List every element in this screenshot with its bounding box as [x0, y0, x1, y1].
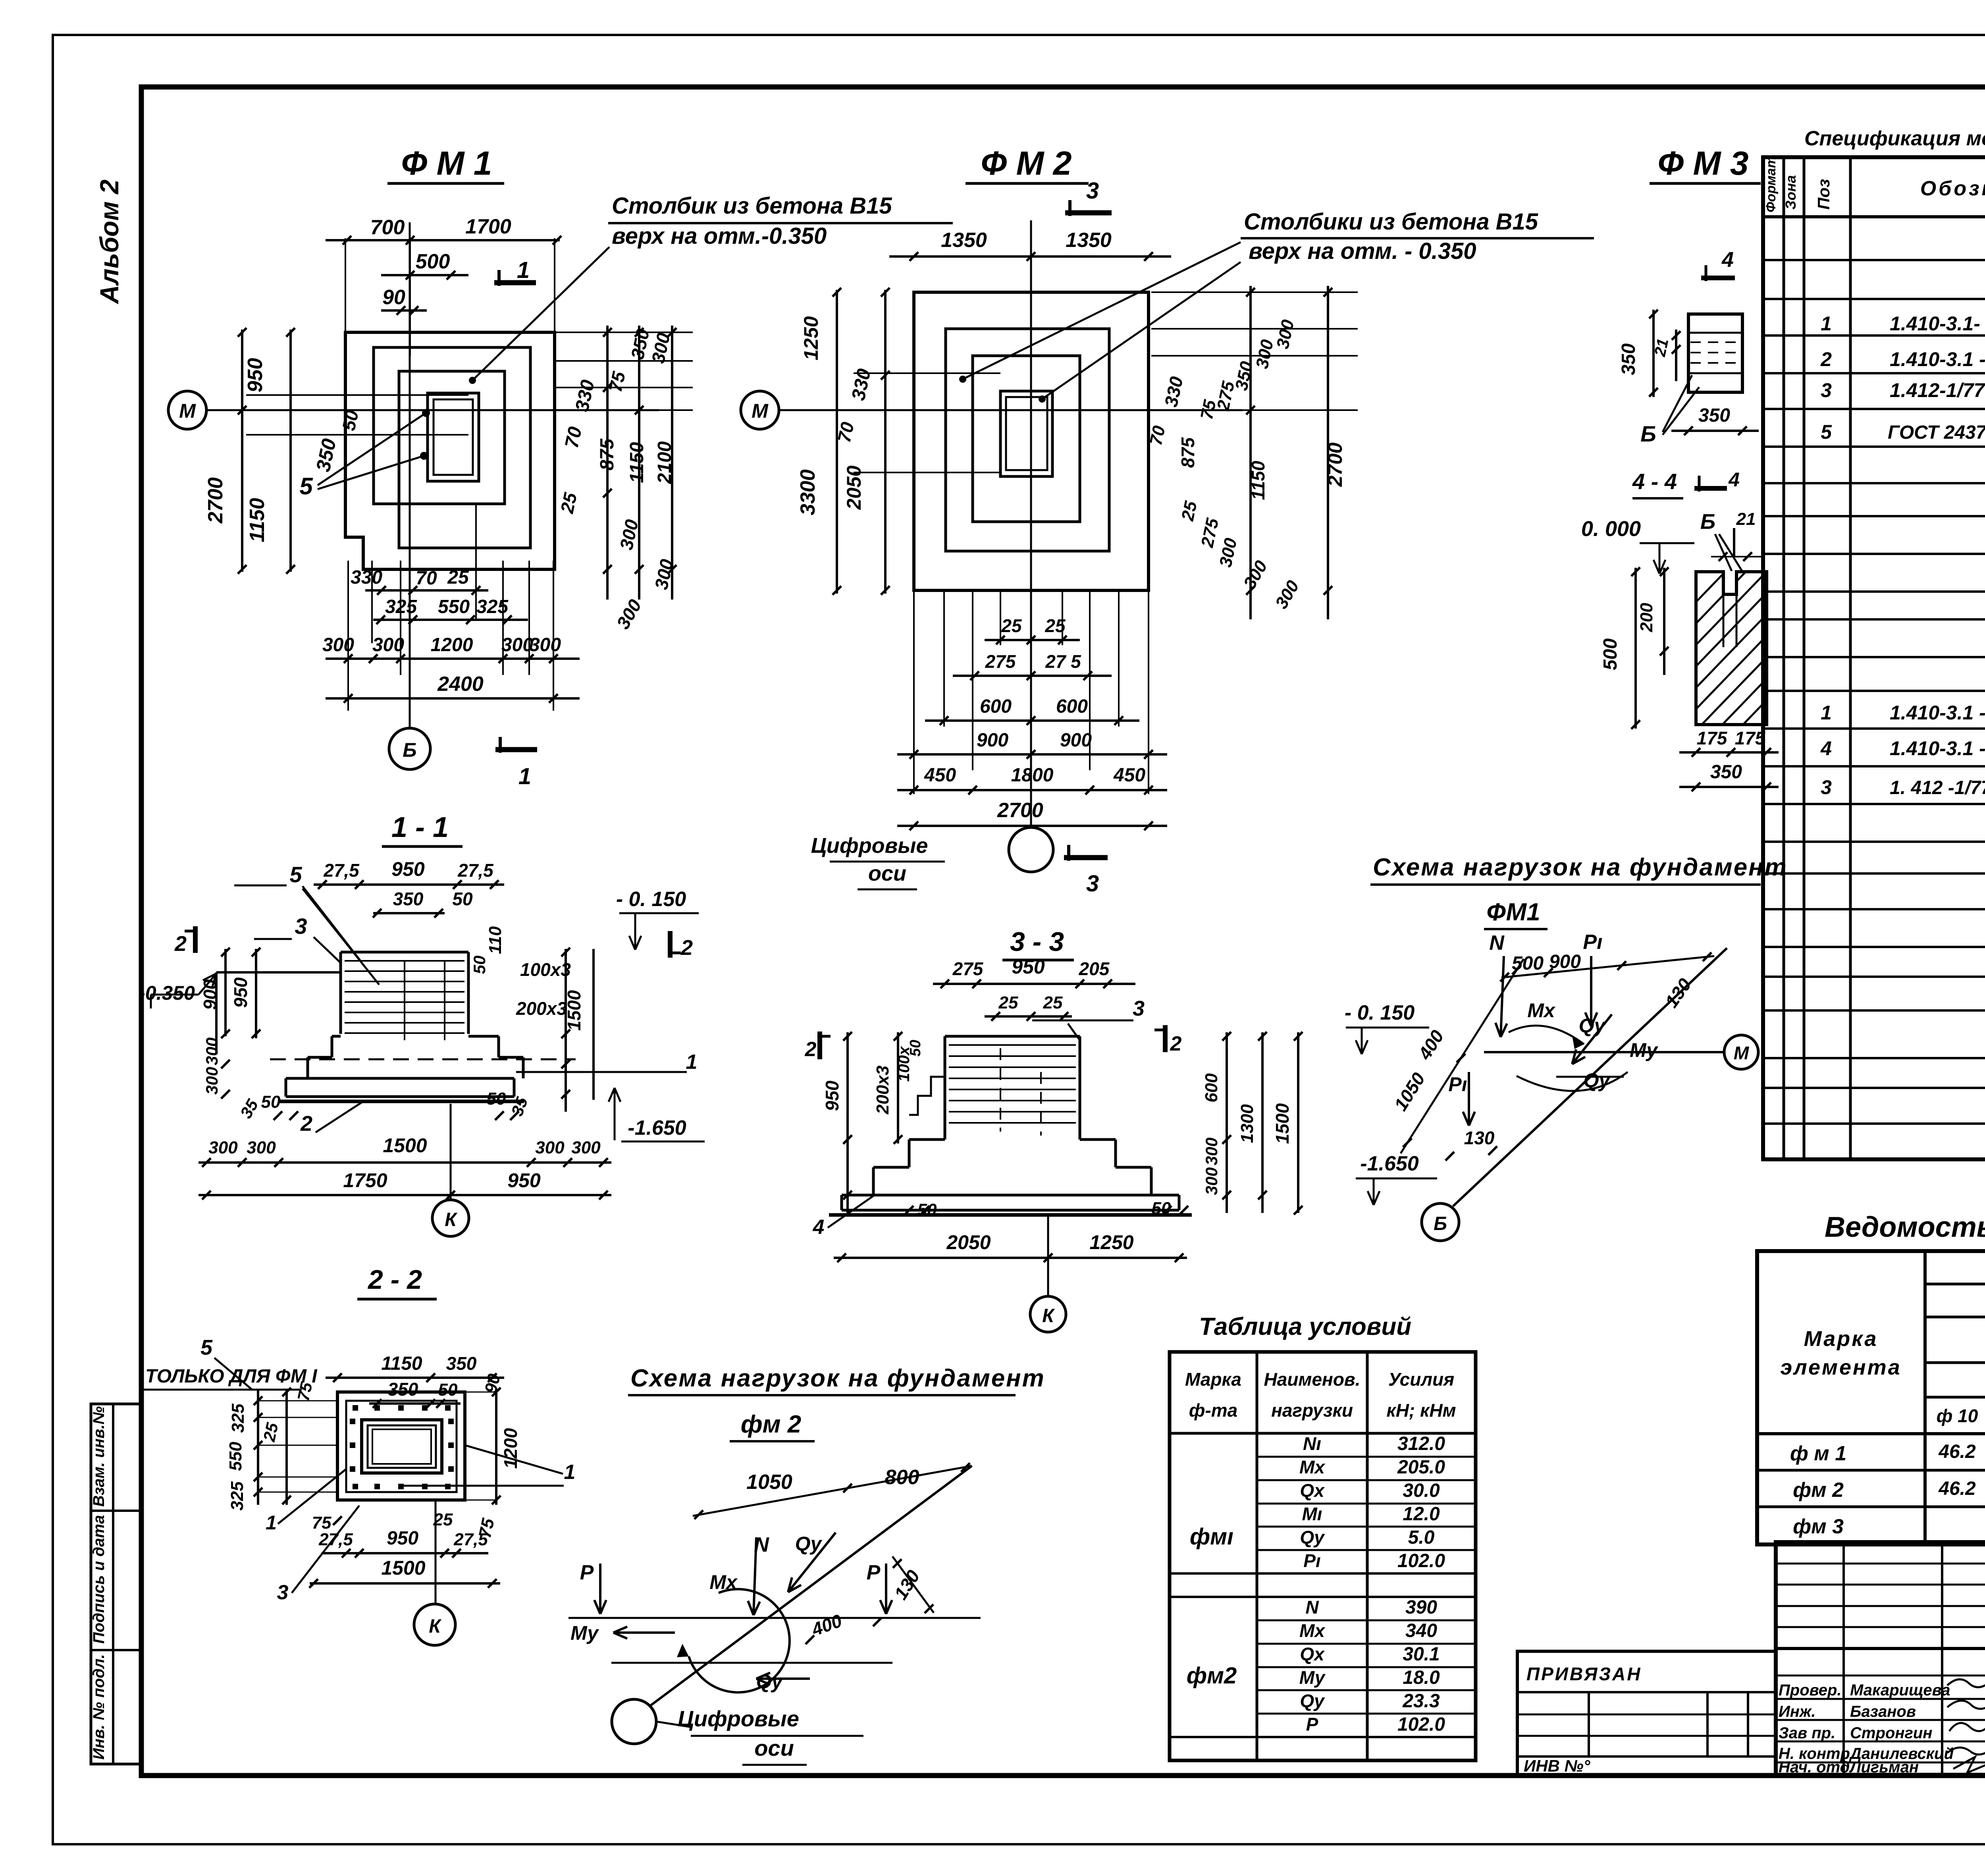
svg-text:25: 25 [1001, 615, 1022, 636]
svg-text:5: 5 [200, 1336, 213, 1359]
svg-text:350: 350 [1618, 343, 1639, 375]
svg-text:800: 800 [885, 1466, 919, 1489]
svg-text:550: 550 [438, 596, 470, 617]
svg-text:Инв. № подл.: Инв. № подл. [90, 1654, 108, 1760]
svg-text:25: 25 [1043, 993, 1063, 1012]
svg-text:М: М [179, 400, 196, 422]
svg-text:1150: 1150 [381, 1353, 422, 1374]
svg-text:312.0: 312.0 [1397, 1433, 1445, 1454]
sec22 axis K [435, 1500, 437, 1604]
svg-text:Р: Р [1306, 1714, 1318, 1735]
svg-text:Столбики из бетона В15: Столбики из бетона В15 [1244, 209, 1538, 235]
svg-text:К: К [1042, 1305, 1055, 1327]
svg-text:600: 600 [1056, 696, 1088, 717]
sec33 left dims [846, 1032, 849, 1213]
svg-text:фм 2: фм 2 [1793, 1479, 1844, 1502]
title block frame [1776, 1542, 1985, 1775]
load2 main diagonal [650, 1466, 972, 1706]
svg-text:1500: 1500 [564, 990, 584, 1031]
svg-text:Qу: Qу [1300, 1691, 1325, 1711]
svg-text:4: 4 [1721, 248, 1734, 272]
sec11 left dims [224, 949, 227, 1036]
load1 axis M horizontal [1484, 1051, 1725, 1053]
svg-text:1.410-3.1- 02: 1.410-3.1- 02 [1890, 312, 1985, 335]
svg-text:К: К [445, 1209, 458, 1230]
fm1 left dims [241, 330, 243, 572]
fm1 third contour [399, 371, 505, 504]
svg-text:2700: 2700 [204, 477, 227, 524]
svg-text:Ф М 2: Ф М 2 [981, 145, 1072, 182]
svg-text:4: 4 [813, 1216, 825, 1239]
svg-text:1: 1 [686, 1051, 698, 1074]
svg-text:Qх: Qх [1300, 1644, 1325, 1664]
svg-text:2400: 2400 [437, 673, 484, 696]
svg-text:Рı: Рı [1303, 1550, 1320, 1571]
svg-text:Цифровые: Цифровые [811, 834, 928, 858]
fm1 middle contour [374, 347, 530, 548]
svg-text:Усилия: Усилия [1388, 1369, 1454, 1390]
signatures [1947, 1679, 1985, 1687]
svg-text:275: 275 [952, 958, 984, 979]
svg-text:1150: 1150 [626, 442, 648, 483]
fm1 outer contour [345, 332, 555, 569]
svg-text:1500: 1500 [381, 1557, 425, 1579]
svg-text:Б: Б [1434, 1213, 1447, 1234]
svg-text:Цифровые: Цифровые [678, 1706, 799, 1731]
svg-text:205: 205 [1079, 958, 1110, 979]
svg-text:90: 90 [382, 286, 405, 309]
svg-text:205.0: 205.0 [1397, 1457, 1445, 1478]
svg-text:46.2: 46.2 [1938, 1478, 1976, 1499]
sec11 base slab [286, 1077, 514, 1080]
svg-text:1 - 1: 1 - 1 [391, 812, 449, 843]
svg-text:275: 275 [985, 651, 1016, 672]
svg-text:100х3: 100х3 [520, 959, 571, 980]
svg-text:Лигьман: Лигьман [1849, 1758, 1919, 1776]
svg-text:1: 1 [517, 257, 530, 283]
svg-text:ф-та: ф-та [1189, 1400, 1238, 1421]
svg-text:Провер.: Провер. [1779, 1681, 1842, 1699]
svg-text:5: 5 [299, 473, 313, 499]
sec22 column rect [362, 1420, 442, 1473]
svg-text:1. 412 -1/77 - В.3 -060: 1. 412 -1/77 - В.3 -060 [1890, 777, 1985, 798]
svg-text:27,5: 27,5 [318, 1530, 353, 1549]
svg-text:1: 1 [518, 764, 531, 789]
svg-text:25: 25 [998, 993, 1018, 1012]
svg-text:- 0. 150: - 0. 150 [616, 888, 686, 911]
svg-text:300: 300 [535, 1138, 565, 1157]
svg-text:50: 50 [452, 889, 473, 909]
fm2 bottom dims [913, 590, 915, 794]
svg-text:1: 1 [564, 1461, 576, 1484]
svg-text:Мх: Мх [1299, 1457, 1326, 1477]
svg-text:175: 175 [1735, 728, 1766, 748]
svg-text:950: 950 [1012, 956, 1045, 978]
svg-text:фмı: фмı [1190, 1524, 1233, 1550]
svg-text:340: 340 [1405, 1620, 1437, 1641]
svg-text:2050: 2050 [946, 1231, 991, 1253]
svg-text:4: 4 [1820, 737, 1832, 760]
svg-text:Схема нагрузок на фундамент: Схема нагрузок на фундамент [630, 1365, 1045, 1392]
svg-text:2: 2 [1820, 348, 1832, 370]
svg-text:кН; кНм: кН; кНм [1386, 1400, 1456, 1421]
svg-text:300: 300 [1202, 1138, 1221, 1165]
fm3 hatch lines [1572, 566, 1985, 731]
svg-text:2 - 2: 2 - 2 [367, 1265, 422, 1295]
svg-text:Спецификация монолитных фунд: Спецификация монолитных фундаментов фм 1… [1804, 127, 1985, 150]
load1 dim 500 900 [1501, 965, 1628, 978]
svg-text:600: 600 [1202, 1073, 1221, 1103]
svg-text:50: 50 [470, 956, 489, 974]
svg-text:1200: 1200 [500, 1428, 521, 1469]
svg-text:27,5: 27,5 [457, 860, 494, 881]
load1 B circle [1422, 1203, 1459, 1241]
svg-text:50: 50 [438, 1380, 458, 1400]
svg-text:1250: 1250 [800, 316, 822, 360]
svg-text:950: 950 [391, 858, 425, 880]
svg-text:3: 3 [1086, 871, 1099, 897]
fm1 column stub [428, 393, 479, 481]
fm1 through extension lines [246, 394, 468, 396]
svg-text:950: 950 [230, 977, 251, 1008]
fm1 axis B vertical [409, 222, 411, 728]
svg-text:Зона: Зона [1783, 175, 1799, 210]
sec22 top dims [326, 1377, 504, 1379]
svg-text:1: 1 [266, 1512, 277, 1534]
svg-text:950: 950 [507, 1169, 541, 1192]
svg-text:Му: Му [570, 1622, 599, 1644]
svg-text:21: 21 [1736, 509, 1756, 529]
sec11 rebar lines [345, 960, 464, 962]
svg-text:N: N [1305, 1597, 1319, 1618]
fm3 bar detail [1688, 314, 1742, 392]
svg-text:70: 70 [416, 568, 437, 589]
sec33 right dims [1226, 1032, 1228, 1213]
svg-text:Альбом 2: Альбом 2 [94, 179, 124, 305]
svg-text:5: 5 [289, 862, 302, 887]
svg-text:Формат: Формат [1763, 156, 1779, 212]
svg-text:3: 3 [1821, 379, 1832, 401]
svg-text:Нач. отд: Нач. отд [1779, 1758, 1850, 1776]
svg-text:50: 50 [907, 1040, 924, 1057]
svg-text:0. 000: 0. 000 [1581, 517, 1641, 541]
svg-text:900: 900 [200, 979, 220, 1010]
svg-text:325: 325 [385, 596, 417, 617]
fm3 21 dim top [1733, 528, 1735, 556]
fm1 top dims [345, 238, 346, 332]
svg-text:27 5: 27 5 [1045, 651, 1081, 672]
fm2 contour 2 [946, 329, 1109, 551]
svg-text:350: 350 [1710, 762, 1742, 783]
svg-text:Б: Б [1640, 421, 1656, 446]
svg-text:нагрузки: нагрузки [1271, 1400, 1353, 1421]
svg-text:Мх: Мх [1299, 1620, 1326, 1641]
sec33 axis K [1047, 1215, 1049, 1295]
svg-text:500: 500 [416, 250, 450, 273]
svg-text:300: 300 [571, 1138, 601, 1157]
fm1 bottom dims [347, 561, 349, 711]
svg-text:Qу: Qу [795, 1533, 823, 1555]
svg-text:Рı: Рı [1583, 931, 1602, 954]
usiliya table grid [1170, 1352, 1476, 1760]
svg-text:102.0: 102.0 [1397, 1550, 1445, 1571]
svg-text:50: 50 [917, 1200, 937, 1220]
svg-text:18.0: 18.0 [1403, 1667, 1440, 1688]
svg-text:Макарищева: Макарищева [1850, 1681, 1950, 1699]
svg-text:Мı: Мı [1302, 1504, 1322, 1524]
svg-text:Инж.: Инж. [1779, 1703, 1816, 1720]
svg-text:300: 300 [529, 634, 561, 656]
sec33 section marks 2 [817, 1032, 822, 1059]
svg-text:50: 50 [487, 1089, 506, 1109]
svg-text:110: 110 [486, 926, 505, 954]
sec22 left dims [258, 1400, 337, 1402]
svg-text:27,5: 27,5 [453, 1530, 488, 1549]
svg-text:175: 175 [1697, 728, 1728, 748]
svg-text:Обозначение: Обозначение [1920, 177, 1985, 200]
svg-text:550: 550 [226, 1442, 245, 1471]
svg-text:2: 2 [300, 1112, 312, 1136]
sec11 neighbor outline left [216, 971, 341, 974]
svg-text:25: 25 [1045, 615, 1066, 636]
svg-text:25: 25 [1178, 499, 1201, 523]
svg-text:300: 300 [247, 1138, 276, 1157]
svg-text:300: 300 [208, 1138, 238, 1157]
sec33 left small steps [909, 1077, 945, 1115]
svg-text:2: 2 [805, 1038, 817, 1061]
fm2 column stub [1000, 391, 1052, 476]
svg-text:12.0: 12.0 [1403, 1504, 1440, 1525]
svg-text:Qу: Qу [1300, 1527, 1325, 1548]
svg-text:Мх: Мх [1527, 999, 1556, 1022]
svg-text:300: 300 [322, 634, 354, 656]
svg-text:325: 325 [476, 596, 509, 617]
fm1 section flag 1 bottom [495, 747, 537, 752]
svg-text:Qх: Qх [1300, 1480, 1325, 1501]
svg-text:700: 700 [370, 216, 405, 239]
svg-text:1750: 1750 [343, 1169, 387, 1192]
sec33 top dims [933, 983, 1135, 985]
svg-text:1800: 1800 [1011, 765, 1054, 786]
svg-text:300: 300 [1202, 1167, 1221, 1195]
svg-text:ПРИВЯЗАН: ПРИВЯЗАН [1526, 1664, 1642, 1684]
svg-text:Б: Б [403, 739, 416, 761]
fm2 contour 3 [973, 356, 1080, 522]
svg-text:М: М [752, 400, 769, 422]
sec11 column outline [341, 951, 468, 954]
sec11 top dims [314, 883, 504, 886]
svg-text:2: 2 [174, 932, 187, 956]
svg-text:1050: 1050 [746, 1471, 792, 1494]
svg-text:2700: 2700 [1324, 442, 1346, 487]
svg-text:Марка: Марка [1185, 1369, 1241, 1390]
svg-text:25: 25 [447, 567, 469, 588]
spec table grid [1763, 157, 1985, 1159]
svg-text:3: 3 [1133, 997, 1145, 1020]
svg-text:900: 900 [1549, 951, 1581, 972]
svg-text:46.2: 46.2 [1938, 1441, 1976, 1462]
svg-text:-1.650: -1.650 [1360, 1152, 1419, 1175]
svg-text:300: 300 [202, 1037, 221, 1065]
sec33 column outline [945, 1035, 1080, 1038]
svg-text:450: 450 [924, 765, 956, 786]
svg-text:130: 130 [1464, 1128, 1495, 1148]
svg-text:5: 5 [1821, 421, 1832, 443]
svg-text:Взам. инв.№: Взам. инв.№ [90, 1406, 108, 1507]
svg-text:Схема нагрузок на фундамент: Схема нагрузок на фундамент [1373, 854, 1788, 881]
svg-text:1250: 1250 [1089, 1231, 1133, 1253]
svg-text:верх на отм.-0.350: верх на отм.-0.350 [612, 223, 827, 249]
svg-text:- 0. 150: - 0. 150 [1345, 1001, 1415, 1024]
fm2 top dims [889, 255, 1171, 258]
svg-text:Марка: Марка [1804, 1327, 1878, 1351]
fm2 through extension lines [854, 372, 1000, 374]
steel table grid [1757, 1251, 1985, 1544]
svg-text:Столбик из бетона В15: Столбик из бетона В15 [612, 193, 892, 219]
svg-text:Зав пр.: Зав пр. [1779, 1724, 1835, 1742]
svg-text:350: 350 [388, 1379, 418, 1400]
svg-text:Р: Р [867, 1561, 881, 1584]
svg-text:2050: 2050 [843, 465, 865, 510]
svg-text:5.0: 5.0 [1408, 1527, 1435, 1548]
load2 dim diagonal 1050 800 [693, 1466, 972, 1516]
sec22 outer rect [337, 1392, 465, 1500]
svg-text:2: 2 [680, 936, 693, 960]
left stamp strip [91, 1404, 141, 1764]
svg-text:1.410-3.1 - 12: 1.410-3.1 - 12 [1890, 737, 1985, 760]
svg-text:500: 500 [1600, 638, 1621, 670]
svg-text:102.0: 102.0 [1397, 1714, 1445, 1735]
svg-text:875: 875 [1178, 437, 1198, 468]
svg-text:Поз: Поз [1814, 179, 1833, 210]
svg-text:4 - 4: 4 - 4 [1632, 469, 1677, 494]
svg-text:200х3: 200х3 [516, 998, 567, 1019]
fm2 left dims [836, 290, 838, 594]
svg-text:50: 50 [261, 1092, 281, 1112]
svg-text:ф м 1: ф м 1 [1790, 1442, 1846, 1465]
sec33 rebar lines [949, 1044, 1076, 1046]
sec11 section marks 2 [193, 926, 198, 953]
svg-text:3: 3 [277, 1581, 289, 1604]
svg-text:Qу: Qу [1584, 1069, 1611, 1091]
fm2 section flag 3 top [1065, 210, 1112, 216]
svg-text:Му: Му [1630, 1039, 1658, 1061]
svg-text:фм2: фм2 [1187, 1663, 1237, 1689]
svg-text:30.1: 30.1 [1403, 1644, 1440, 1665]
svg-text:1500: 1500 [383, 1134, 427, 1157]
svg-text:1700: 1700 [465, 215, 511, 238]
svg-text:200х3: 200х3 [873, 1066, 892, 1114]
svg-text:350: 350 [1698, 405, 1730, 426]
svg-text:Ф М 1: Ф М 1 [401, 145, 492, 182]
sec33 base slab [842, 1194, 1179, 1197]
svg-text:27,5: 27,5 [323, 860, 360, 881]
svg-text:1: 1 [1821, 702, 1832, 724]
fm2 digit axis circle [1009, 827, 1053, 872]
sec11 steps [332, 1035, 341, 1038]
fm2 right dim cluster [1151, 291, 1358, 293]
fm3 section flag 4 [1701, 276, 1735, 280]
svg-text:350: 350 [446, 1353, 477, 1374]
load1 dim 400 1050 left [1401, 959, 1524, 1153]
svg-text:1.412-1/77-В.3 -060: 1.412-1/77-В.3 -060 [1890, 379, 1985, 401]
svg-text:1350: 1350 [941, 229, 987, 252]
svg-text:ГОСТ 24379.1 - 80: ГОСТ 24379.1 - 80 [1888, 422, 1985, 443]
load2 horizontal lines [569, 1617, 981, 1619]
svg-text:Р: Р [580, 1561, 594, 1584]
svg-text:3: 3 [295, 914, 307, 939]
sec22 right dims [465, 1392, 496, 1393]
svg-text:ТОЛЬКО ДЛЯ ФМ I: ТОЛЬКО ДЛЯ ФМ I [145, 1366, 318, 1387]
svg-text:оси: оси [868, 862, 906, 885]
svg-text:фм 3: фм 3 [1793, 1515, 1844, 1538]
svg-text:900: 900 [977, 730, 1008, 751]
sec22 rebar dots [353, 1405, 358, 1411]
svg-text:950: 950 [822, 1080, 842, 1111]
load1 diagonal axis [1453, 948, 1727, 1206]
sec22 inner rect [346, 1401, 457, 1492]
svg-text:3: 3 [1821, 776, 1832, 798]
svg-text:Рı: Рı [1448, 1073, 1467, 1095]
svg-text:2100: 2100 [654, 441, 675, 484]
svg-text:2700: 2700 [997, 799, 1043, 822]
fm2 axis vertical [1030, 220, 1032, 828]
svg-text:325: 325 [227, 1481, 247, 1511]
svg-text:ИНВ №°: ИНВ №° [1524, 1756, 1591, 1775]
svg-text:875: 875 [597, 438, 618, 470]
svg-text:390: 390 [1405, 1597, 1437, 1618]
svg-text:Ведомость расхода стали на: Ведомость расхода стали на элемент, кг [1825, 1211, 1985, 1243]
svg-text:1300: 1300 [1237, 1104, 1257, 1143]
svg-text:Б: Б [1700, 510, 1715, 534]
svg-text:1200: 1200 [431, 634, 473, 656]
svg-text:950: 950 [387, 1528, 418, 1549]
svg-text:4: 4 [1728, 469, 1740, 491]
svg-text:950: 950 [244, 358, 267, 393]
load2 circle [612, 1699, 656, 1744]
svg-text:фм 2: фм 2 [741, 1411, 801, 1438]
svg-text:1500: 1500 [1272, 1103, 1293, 1144]
svg-text:23.3: 23.3 [1402, 1691, 1440, 1712]
sec33 steps [909, 1138, 945, 1141]
svg-text:300: 300 [501, 634, 533, 656]
svg-text:450: 450 [1113, 765, 1145, 786]
svg-text:1150: 1150 [246, 498, 269, 542]
svg-text:3300: 3300 [796, 469, 819, 515]
svg-text:900: 900 [1060, 730, 1092, 751]
svg-text:3 - 3: 3 - 3 [1010, 927, 1064, 957]
svg-text:200: 200 [1637, 603, 1656, 632]
fm1 section flag 1 top [494, 280, 536, 285]
svg-text:Базанов: Базанов [1850, 1703, 1916, 1720]
svg-text:300: 300 [372, 634, 404, 656]
svg-text:1.410-3.1 - 02: 1.410-3.1 - 02 [1890, 702, 1985, 724]
svg-text:350: 350 [393, 889, 424, 909]
svg-text:Му: Му [1299, 1667, 1326, 1688]
svg-text:1.410-3.1 - 12: 1.410-3.1 - 12 [1890, 348, 1985, 370]
svg-text:600: 600 [980, 696, 1012, 717]
sec11 axis K [450, 1104, 452, 1199]
svg-text:21: 21 [1651, 337, 1672, 359]
fm3 350 bottom dim [1671, 430, 1759, 432]
svg-text:30.0: 30.0 [1403, 1480, 1440, 1501]
svg-text:М: М [1734, 1043, 1750, 1063]
svg-text:3: 3 [1086, 178, 1099, 204]
svg-text:2: 2 [1170, 1032, 1182, 1055]
fm2 axis M [741, 391, 779, 429]
fm3 lower dims [1634, 568, 1637, 729]
svg-text:-0.350: -0.350 [139, 982, 195, 1004]
